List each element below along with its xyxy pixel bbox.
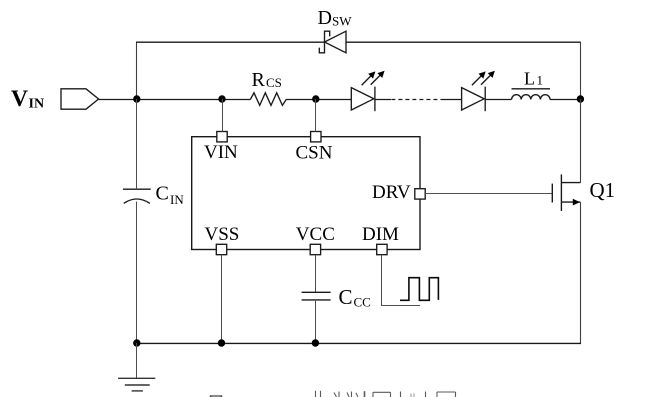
node junction ground rail at VSS <box>218 339 225 346</box>
wire main rail VIN node to resistor <box>136 99 250 101</box>
wire right vertical to Q1 drain <box>580 99 582 183</box>
wire VIN branch to pin <box>222 99 224 132</box>
label DSW <box>318 7 353 29</box>
wire Q1 source to bottom rail <box>580 202 582 343</box>
svg-text:CSN: CSN <box>296 143 333 164</box>
label pin VCC <box>296 224 335 245</box>
node VIN label <box>11 86 44 112</box>
svg-text:R: R <box>252 69 266 91</box>
wire bottom ground rail <box>136 342 581 344</box>
svg-text:VIN: VIN <box>204 142 238 163</box>
wire left vertical upper segment <box>136 42 138 99</box>
ground <box>118 343 155 391</box>
label L1 <box>524 69 543 89</box>
wire CCC to ground rail <box>315 300 317 343</box>
wire VIN tag to main node <box>99 99 137 101</box>
wire LED2 to inductor <box>485 99 511 101</box>
svg-text:DRV: DRV <box>372 182 411 203</box>
wire left vertical below CIN to ground rail <box>136 202 138 344</box>
svg-text:SW: SW <box>332 14 352 29</box>
label CCC <box>339 285 371 310</box>
wire CSN branch to pin <box>315 99 317 132</box>
svg-text:CS: CS <box>266 75 282 90</box>
capacitor CIN <box>123 189 151 203</box>
pin CSN square <box>311 132 321 142</box>
PWM dimming waveform <box>400 278 438 301</box>
label CIN <box>156 183 185 208</box>
pin VIN square <box>217 132 227 142</box>
node junction at L1 output <box>577 95 584 102</box>
wire inductor to right node <box>550 99 581 101</box>
transistor Q1 <box>552 174 580 211</box>
wire right vertical upper segment <box>580 42 582 99</box>
svg-text:DIM: DIM <box>362 224 399 245</box>
label RCS <box>252 69 282 91</box>
diode DSW (Schottky) <box>319 31 346 53</box>
svg-text:V: V <box>11 86 28 112</box>
node junction ground rail at VCC <box>312 339 319 346</box>
label Q1 <box>590 178 616 202</box>
wire dashed LED string <box>391 99 443 101</box>
svg-text:IN: IN <box>170 192 184 207</box>
label pin VIN <box>204 142 238 163</box>
svg-text:CC: CC <box>354 295 371 310</box>
svg-text:Q1: Q1 <box>590 178 616 202</box>
wire DRV pin to Q1 gate <box>425 193 552 195</box>
label pin DIM <box>362 224 399 245</box>
wire top rail right segment <box>346 41 581 43</box>
node junction at VIN tag <box>133 95 140 102</box>
wire LED1 cathode stub <box>375 99 391 101</box>
wire VCC pin to CCC <box>315 255 317 293</box>
resistor RCS <box>250 93 288 106</box>
svg-text:L: L <box>524 69 535 89</box>
label pin VSS <box>205 224 240 245</box>
node junction at VIN pin branch <box>218 95 225 102</box>
pin DRV square <box>415 189 425 199</box>
pin VSS square <box>216 244 226 254</box>
node junction ground rail at CIN <box>133 339 140 346</box>
wire left vertical top of CIN <box>136 99 138 189</box>
svg-text:VCC: VCC <box>296 224 335 245</box>
wire VSS pin to ground rail <box>221 255 223 343</box>
svg-text:C: C <box>156 183 169 205</box>
label pin DRV <box>372 182 411 203</box>
pin DIM square <box>377 244 387 254</box>
svg-text:VSS: VSS <box>205 224 240 245</box>
inductor L1 <box>512 89 551 100</box>
wire to LED2 <box>444 99 462 101</box>
LED D2 <box>462 71 495 112</box>
caption top slivers (figure caption cut at page bottom) <box>210 391 456 397</box>
input tag VIN <box>61 89 99 109</box>
wire top rail left segment <box>136 41 325 43</box>
svg-text:D: D <box>318 7 332 29</box>
label pin CSN <box>296 143 333 164</box>
LED D1 <box>351 71 384 112</box>
node junction at CSN branch <box>312 95 319 102</box>
capacitor CCC <box>302 292 331 300</box>
wire DIM pin down and right <box>382 255 421 306</box>
pin VCC square <box>310 244 320 254</box>
wire resistor to LED1 <box>288 99 351 101</box>
IC U1 body <box>192 137 420 250</box>
svg-text:1: 1 <box>537 73 544 88</box>
svg-text:IN: IN <box>29 97 45 112</box>
svg-text:C: C <box>339 285 353 309</box>
